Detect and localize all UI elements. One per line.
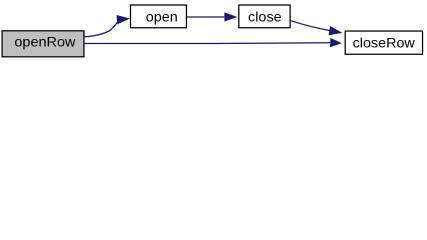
svg-text:closeRow: closeRow xyxy=(353,35,415,50)
node closeRow xyxy=(345,31,422,54)
edge openRow->closeRow xyxy=(85,38,342,47)
node close xyxy=(239,5,290,28)
node openRow (root, grey) xyxy=(2,31,84,57)
svg-text:open: open xyxy=(146,10,178,25)
svg-text:openRow: openRow xyxy=(14,35,75,50)
edge open->close xyxy=(187,12,237,21)
node open xyxy=(131,5,187,28)
edge openRow->open xyxy=(85,15,131,37)
edge close->closeRow xyxy=(291,21,343,36)
svg-text:close: close xyxy=(248,10,282,25)
doxygen-style call graph: openRow -> open -> close -> closeRow, openRow -> closeRow xyxy=(0,0,427,63)
